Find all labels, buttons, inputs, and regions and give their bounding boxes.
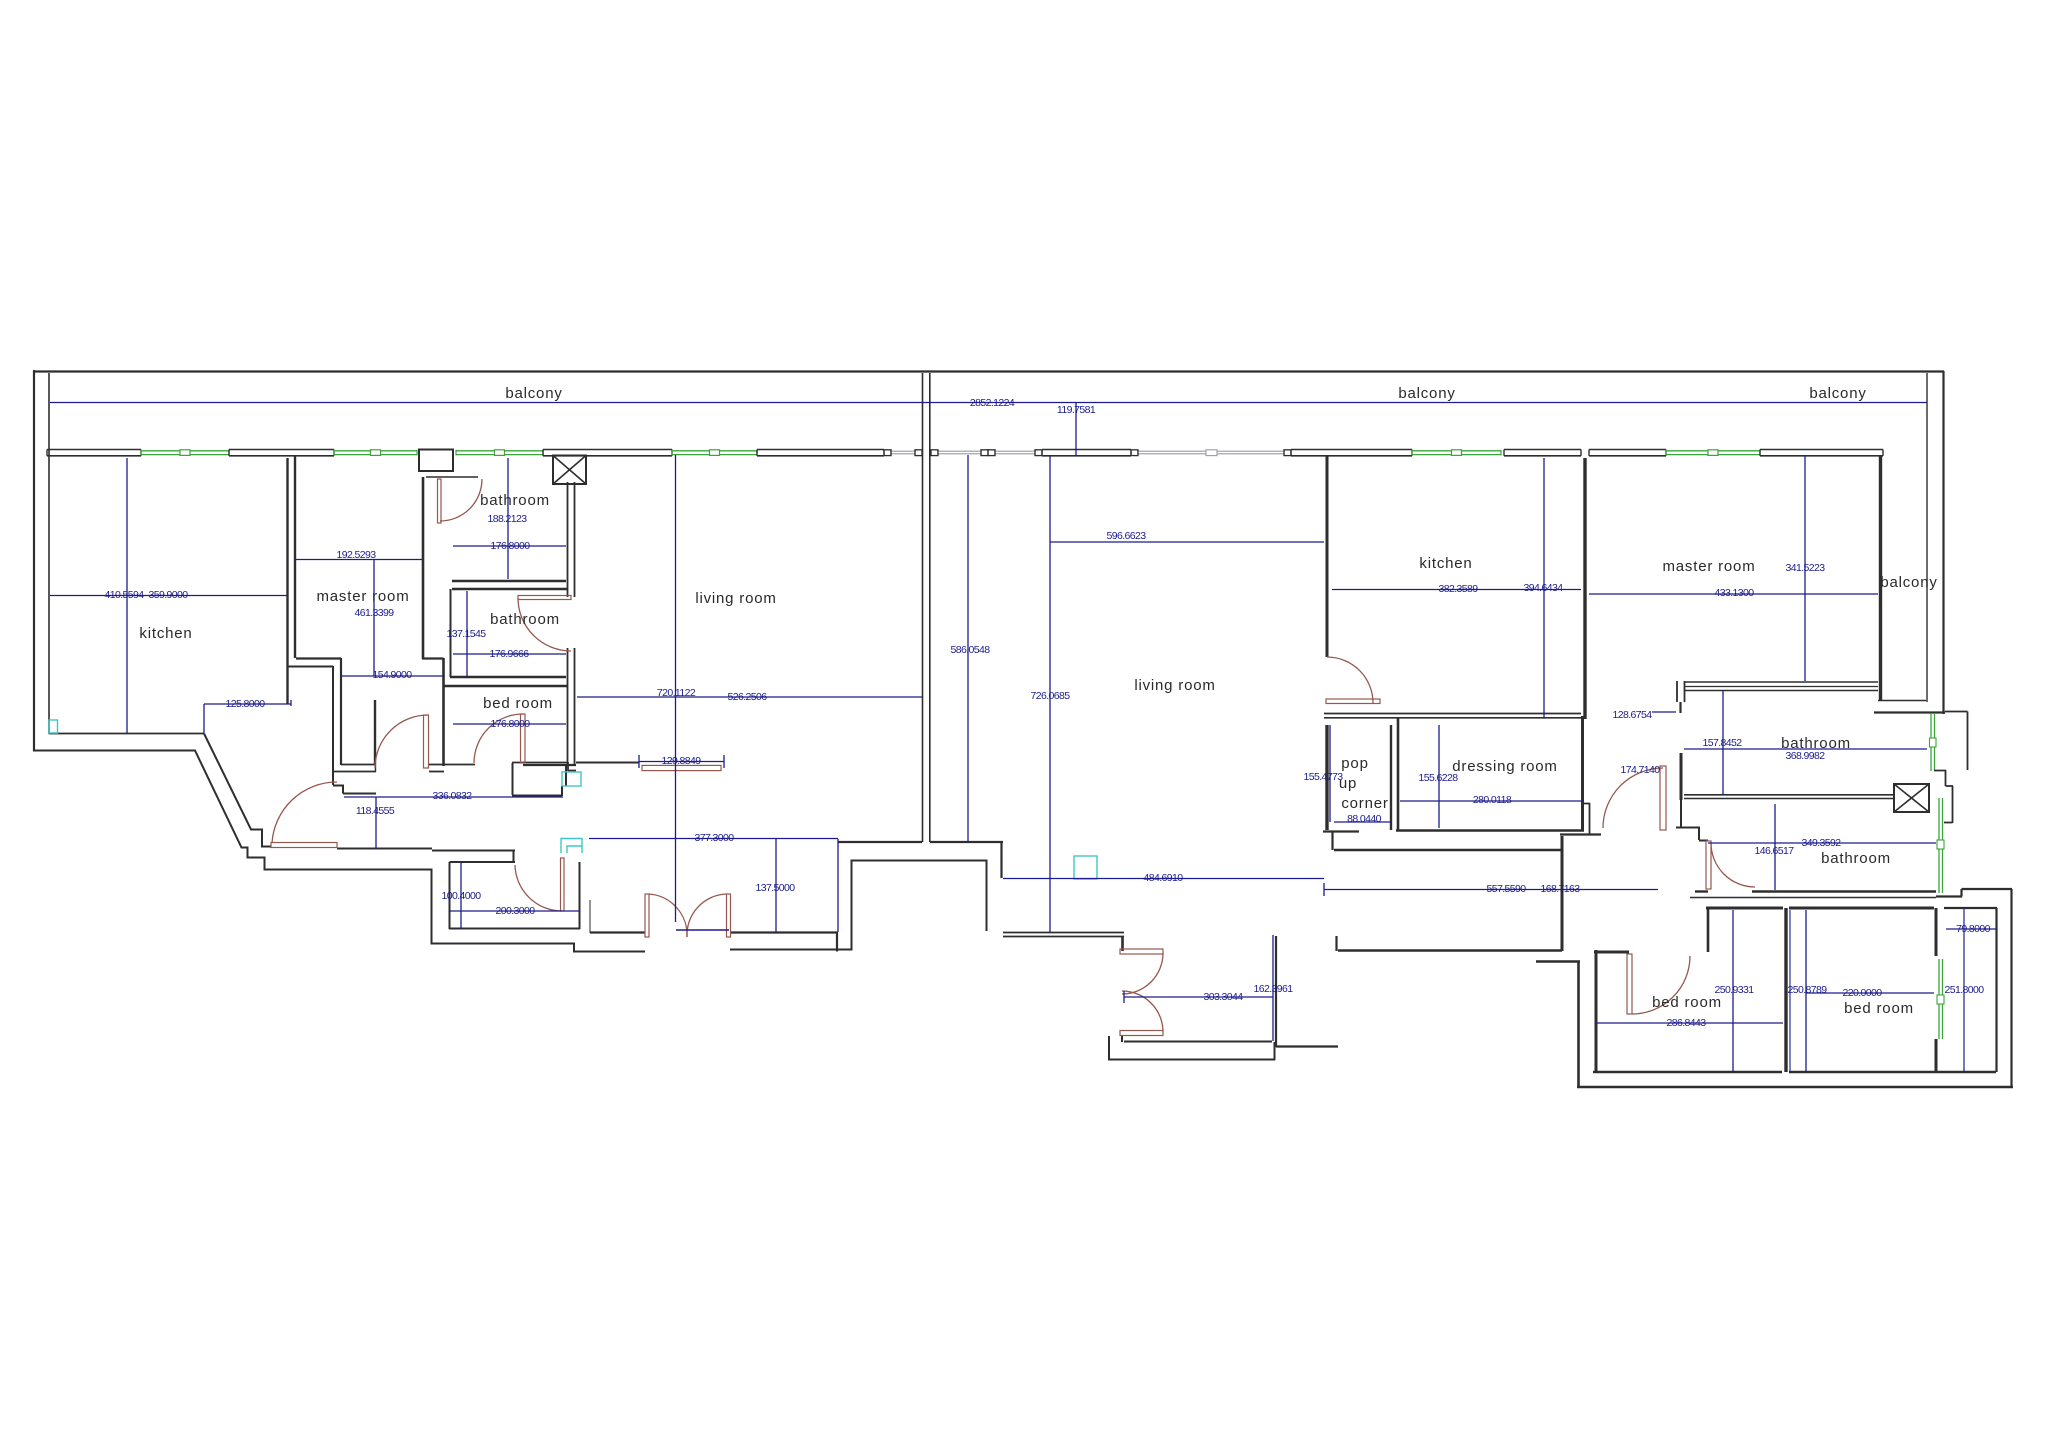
svg-text:balcony: balcony: [1880, 574, 1937, 591]
window bedroom2R green: [1937, 959, 1944, 1039]
window W7 white: [1131, 450, 1291, 456]
label bathroom2 right: [1821, 850, 1891, 867]
dim 119.7581 vertical: [1075, 403, 1077, 455]
wall outer bottom right: [1577, 1086, 2013, 1088]
wall entry left stub: [590, 900, 645, 933]
wall right rooms right: [1995, 908, 1997, 1072]
dim 349.3592 line: [1708, 842, 1936, 844]
svg-text:corner: corner: [1341, 795, 1388, 812]
dim 586.0548 vertical: [967, 455, 969, 842]
svg-text:119.7581: 119.7581: [1057, 404, 1096, 416]
num 125.8000: [226, 698, 266, 710]
svg-text:168.7163: 168.7163: [1541, 883, 1581, 895]
svg-text:155.6228: 155.6228: [1419, 772, 1459, 784]
dim 192 vertical: [373, 559, 375, 676]
label balcony right: [1809, 385, 1866, 402]
window right bath2 green: [1937, 798, 1944, 893]
svg-text:250.9331: 250.9331: [1715, 984, 1755, 996]
num 250.9331: [1715, 984, 1755, 996]
label bed room 2R: [1844, 1000, 1914, 1017]
label master room right: [1663, 558, 1756, 575]
svg-text:154.9000: 154.9000: [373, 669, 413, 681]
label living room left: [695, 590, 776, 607]
svg-text:394.6434: 394.6434: [1524, 582, 1564, 594]
dim 250.8789 vertical: [1805, 910, 1807, 1072]
dim 303.3044 line: [1124, 991, 1273, 1003]
window W5 white: [884, 450, 922, 456]
num 250.8789: [1788, 984, 1828, 996]
door bathroom1 arc: [440, 479, 482, 521]
door master-corridor leaf: [424, 715, 429, 768]
svg-text:484.6910: 484.6910: [1144, 872, 1184, 884]
num 484.6910: [1144, 872, 1184, 884]
wall bedroom1R topright stub: [1707, 908, 1710, 952]
svg-text:bed room: bed room: [1844, 1000, 1914, 1017]
dim 557-168 line: [1324, 883, 1658, 896]
svg-text:433.1300: 433.1300: [1715, 587, 1755, 599]
label pop: [1341, 755, 1368, 772]
num 526.2506: [728, 691, 768, 703]
num 119.7581: [1057, 404, 1096, 416]
wire outer top wall: [33, 370, 1944, 372]
wall top segment I: [1760, 450, 1883, 456]
wall hall bottom piece: [512, 762, 576, 771]
door hall small leaf: [642, 765, 721, 770]
svg-text:88.0440: 88.0440: [1347, 813, 1382, 825]
svg-text:726.0685: 726.0685: [1031, 690, 1071, 702]
wall bedroom bottom band mid: [429, 765, 475, 772]
wall bathroom2R left steps: [1676, 753, 1708, 841]
fixture cyan kitchen: [49, 720, 58, 733]
svg-text:100.4000: 100.4000: [442, 890, 482, 902]
wall pocket: [1108, 1035, 1275, 1060]
wall corridor right: [374, 700, 376, 764]
wall bathroom2 left: [450, 589, 452, 677]
wall master bottom elbow: [296, 657, 341, 659]
door master-corridor arc: [375, 715, 428, 768]
num 382.3589: [1439, 583, 1479, 595]
num 155.6228: [1419, 772, 1459, 784]
wall right rooms divider: [1963, 908, 1965, 1072]
wall bedroom left: [442, 658, 445, 766]
door bathroom2 arc: [518, 598, 571, 651]
dim 382-394 line: [1332, 589, 1581, 591]
door kitchen2 leaf: [1326, 699, 1380, 704]
wall master-bath divider: [422, 477, 425, 659]
wire outer bottom-left with diagonal: [33, 751, 645, 952]
wall corridor2 left: [1561, 836, 1564, 951]
svg-text:bed room: bed room: [1652, 994, 1722, 1011]
dim 146.6517 vertical: [1774, 804, 1776, 890]
door bathroom2 leaf: [518, 596, 571, 600]
dim 157-368 line: [1684, 748, 1927, 750]
svg-text:410.5594: 410.5594: [105, 589, 145, 601]
svg-text:balcony: balcony: [505, 385, 562, 402]
wall lr bottom left piece: [838, 841, 922, 843]
wall right rooms top: [1944, 907, 1997, 909]
wall kitchen2 left: [1326, 456, 1329, 657]
label bathroom2 left: [490, 611, 560, 628]
num 137.1545: [447, 628, 487, 640]
num 359.9000: [149, 589, 189, 601]
wall kitchen2-master divider: [1583, 458, 1586, 719]
dim 125.8000 line: [204, 700, 291, 733]
dim entry threshold: [676, 929, 729, 931]
num 176.8000 b: [491, 718, 531, 730]
door bath2R leaf: [1706, 841, 1711, 889]
num 168.7163: [1541, 883, 1581, 895]
wall small room box: [449, 862, 580, 929]
wall bathroom-bed right double upper: [568, 482, 575, 597]
num 118.4555: [356, 805, 395, 817]
door entry double right leaf: [727, 894, 731, 937]
wall outer step right: [1936, 889, 2012, 1087]
dim 250 mid vertical: [1789, 910, 1791, 1072]
num 174.7140: [1621, 764, 1661, 776]
svg-text:balcony: balcony: [1809, 385, 1866, 402]
num 349.3592: [1802, 837, 1842, 849]
door entry double left arc: [649, 894, 687, 937]
svg-text:dressing room: dressing room: [1452, 758, 1557, 775]
num 336.0832: [433, 790, 473, 802]
dim 251.8000 vertical: [1963, 908, 1965, 1072]
dim 154.9000 line: [342, 675, 444, 677]
door bath2R arc: [1711, 843, 1755, 887]
svg-text:303.3044: 303.3044: [1204, 991, 1244, 1003]
door bath1R arc: [1603, 768, 1663, 828]
dim balcony long line: [50, 402, 1927, 404]
svg-text:336.0832: 336.0832: [433, 790, 473, 802]
door entry double left leaf: [645, 894, 649, 937]
num 128.6754: [1613, 709, 1653, 721]
num 162.3961: [1254, 983, 1294, 995]
door hall2 double top leaf: [1120, 949, 1163, 954]
wall left of bath door: [1582, 803, 1590, 835]
svg-text:368.9982: 368.9982: [1786, 750, 1826, 762]
wall bedroom bottom right: [523, 764, 576, 766]
label up: [1339, 775, 1357, 792]
dim 220.0000 line: [1806, 992, 1934, 994]
wall kitchen right: [286, 458, 288, 704]
num 586.0548: [951, 644, 991, 656]
svg-text:526.2506: 526.2506: [728, 691, 768, 703]
door bedroom1R leaf: [1627, 954, 1632, 1014]
wall master2 bottom step: [1677, 681, 1685, 713]
wall right step mid: [1934, 770, 1953, 823]
dim 79.8000 line: [1946, 928, 1997, 930]
window W6 white: [931, 450, 988, 456]
wall inner diagonal: [204, 734, 271, 847]
svg-text:128.6754: 128.6754: [1613, 709, 1653, 721]
wall entry right stub: [730, 933, 838, 952]
door kitchen2 arc: [1327, 657, 1373, 703]
svg-text:359.9000: 359.9000: [149, 589, 189, 601]
num 286.8443: [1667, 1017, 1707, 1029]
wall lr bottom right piece: [930, 842, 1003, 878]
dim 200.3000 line: [449, 910, 580, 912]
wall lr2 band top: [1003, 933, 1124, 937]
dim 410-359 line: [50, 595, 287, 597]
dim 155.6228 vertical: [1438, 725, 1440, 828]
wall hall bottom south: [337, 848, 432, 850]
label balcony left: [505, 385, 562, 402]
wall master2 bottom: [1684, 682, 1878, 691]
dim 192.5293 line: [296, 559, 422, 561]
window W2 green: [334, 450, 417, 456]
wall bed corridor top: [1338, 949, 1562, 952]
num 377.3000: [695, 832, 735, 844]
label corner: [1341, 795, 1388, 812]
num 341.5223: [1786, 562, 1826, 574]
wall bathroom2R bottom: [1690, 892, 1936, 898]
shaft box2 with X: [1894, 784, 1929, 812]
svg-text:220.0000: 220.0000: [1843, 987, 1883, 999]
svg-text:master room: master room: [1663, 558, 1756, 575]
wire outer right top corner: [1942, 371, 1944, 714]
svg-text:2852.1224: 2852.1224: [970, 397, 1015, 409]
wall left of small door: [576, 762, 639, 764]
svg-text:250.8789: 250.8789: [1788, 984, 1828, 996]
dim bathroom1 vertical: [507, 458, 509, 579]
wall corridor2 top: [1560, 833, 1601, 835]
svg-text:balcony: balcony: [1398, 385, 1455, 402]
window right bath1 green: [1930, 714, 1937, 771]
dim 176.8000 b1 line: [453, 545, 566, 547]
svg-text:118.4555: 118.4555: [356, 805, 395, 817]
wall balcony2 bottom: [1874, 701, 1945, 713]
num 596.6623: [1107, 530, 1147, 542]
door bath1R leaf: [1660, 766, 1666, 830]
dim 726.0685 vertical: [1049, 455, 1051, 932]
wall bedroom2R right upper: [1935, 908, 1938, 956]
svg-text:146.6517: 146.6517: [1755, 845, 1795, 857]
door small room arc: [515, 865, 562, 911]
label living room right: [1134, 677, 1215, 694]
dim 336.0832 line: [344, 796, 563, 798]
num 303.3044: [1204, 991, 1244, 1003]
num 137.5000: [756, 882, 796, 894]
wall corridor2 bottom: [1334, 849, 1562, 851]
svg-text:125.8000: 125.8000: [226, 698, 266, 710]
num 176.9666: [490, 648, 530, 660]
window W9 green: [1666, 450, 1760, 456]
wall bedrooms divider: [1784, 908, 1787, 1072]
svg-text:living room: living room: [1134, 677, 1215, 694]
num 726.0685: [1031, 690, 1071, 702]
window W8 green: [1412, 450, 1501, 456]
label balcony mid: [1398, 385, 1455, 402]
num 433.1300: [1715, 587, 1755, 599]
dim 286.8443 line: [1596, 1022, 1783, 1024]
window W1 green: [141, 450, 229, 456]
svg-text:79.8000: 79.8000: [1956, 923, 1991, 935]
wall top segment E: [1042, 450, 1131, 456]
wire outer left wall: [33, 370, 35, 751]
num 220.0000: [1843, 987, 1883, 999]
label bed room 1R: [1652, 994, 1722, 1011]
door bedroom leaf: [521, 714, 526, 763]
wall popup left: [1325, 725, 1328, 830]
wall right duct: [1945, 712, 1968, 771]
svg-text:living room: living room: [695, 590, 776, 607]
svg-text:174.7140: 174.7140: [1621, 764, 1661, 776]
wall bathroom1 bottom: [452, 580, 566, 582]
svg-text:162.3961: 162.3961: [1254, 983, 1294, 995]
label kitchen left: [139, 625, 192, 642]
wall top segment A: [47, 450, 141, 456]
fixture teal small room: [561, 839, 582, 854]
svg-text:bathroom: bathroom: [490, 611, 560, 628]
dim 341.5223 vertical: [1804, 456, 1806, 681]
door hall-entry arc: [272, 782, 337, 843]
window W3 green: [456, 450, 543, 456]
num 154.9000: [373, 669, 413, 681]
dim 157.8452 vertical: [1722, 690, 1724, 795]
wall lr2 jamb: [1121, 937, 1124, 951]
svg-text:155.4773: 155.4773: [1304, 771, 1344, 783]
dim 129.8849 line: [639, 755, 724, 768]
svg-text:192.5293: 192.5293: [337, 549, 377, 561]
label dressing room: [1452, 758, 1557, 775]
wall hall elbow low: [333, 785, 376, 794]
wall bedroom bottom band left: [333, 764, 376, 772]
num 2852.1224: [970, 397, 1015, 409]
wall popup bottom: [1323, 832, 1359, 851]
dim 88.0440 line: [1334, 821, 1392, 823]
wall bathroom-bed right double lower: [568, 648, 575, 766]
svg-text:188.2123: 188.2123: [488, 513, 528, 525]
wall bedrooms top: [1706, 907, 1934, 910]
door hall2 double top arc: [1122, 953, 1163, 994]
dim 433.1300 line: [1589, 593, 1878, 595]
wall balcony2 inner right: [1926, 373, 1928, 702]
wall pillar: [1276, 936, 1338, 1047]
num 88.0440: [1347, 813, 1382, 825]
num 394.6434: [1524, 582, 1564, 594]
wall small room top: [432, 850, 515, 862]
fixture cyan living2: [1074, 856, 1097, 879]
svg-text:bathroom: bathroom: [480, 492, 550, 509]
door entry double right arc: [687, 894, 726, 937]
fixture cyan hall: [562, 772, 581, 786]
label bed room left: [483, 695, 553, 712]
wall bedroom1R topleft: [1594, 951, 1629, 954]
dim 596.6623 line: [1050, 541, 1324, 543]
num 461.3399: [355, 607, 395, 619]
svg-text:286.8443: 286.8443: [1667, 1017, 1707, 1029]
num 100.4000: [442, 890, 482, 902]
num 188.2123: [488, 513, 528, 525]
dim 137.5 box: [776, 839, 838, 932]
door small room leaf: [561, 858, 565, 911]
wall master left: [294, 456, 296, 658]
label bathroom1 left: [480, 492, 550, 509]
svg-text:176.9666: 176.9666: [490, 648, 530, 660]
dim 162.3961 vertical: [1272, 935, 1274, 1041]
wall bathroom1R left: [1680, 753, 1683, 800]
wall bedroom2R right lower: [1935, 1039, 1938, 1072]
svg-text:129.8849: 129.8849: [662, 755, 702, 767]
label balcony master: [1880, 574, 1937, 591]
svg-text:bathroom: bathroom: [1821, 850, 1891, 867]
dim kitchen vertical: [126, 458, 128, 733]
window W4 green: [672, 450, 757, 456]
svg-text:176.8000: 176.8000: [491, 540, 531, 552]
svg-text:bed room: bed room: [483, 695, 553, 712]
wall bathroom2 bottom: [450, 676, 566, 678]
wall bathroom1R bottom: [1684, 795, 1894, 799]
door hall-entry leaf: [271, 843, 337, 848]
label bathroom1 right: [1781, 735, 1851, 752]
dim 128.6754 line: [1652, 711, 1676, 713]
wall dressing bottom: [1396, 829, 1584, 831]
wall block over bathroom door: [419, 450, 478, 478]
num 720.1122: [657, 687, 696, 699]
num 129.8849: [662, 755, 702, 767]
label master room left: [317, 588, 410, 605]
wall corridor left a: [340, 658, 342, 765]
svg-text:kitchen: kitchen: [139, 625, 192, 642]
svg-text:137.1545: 137.1545: [447, 628, 487, 640]
wall bathroom2 top: [452, 588, 568, 590]
svg-text:157.8452: 157.8452: [1703, 737, 1743, 749]
num 176.8000 a: [491, 540, 531, 552]
svg-text:master room: master room: [317, 588, 410, 605]
wall top segment F: [1291, 450, 1412, 456]
wall kitchen2 bottom dressing top: [1324, 714, 1581, 718]
num 200.3000: [496, 905, 536, 917]
dim lr1 vertical: [675, 455, 677, 922]
wall top segment D: [757, 450, 884, 456]
num 410.5594: [105, 589, 145, 601]
wall unit separation: [923, 373, 930, 842]
door bedroom1R arc: [1632, 956, 1690, 1014]
dim 100.4000 vertical: [460, 862, 462, 929]
door bedroom arc: [474, 714, 523, 763]
wall bedroom top: [444, 685, 568, 687]
wall top segment G: [1504, 450, 1581, 456]
wall popup right: [1390, 725, 1392, 830]
svg-text:377.3000: 377.3000: [695, 832, 735, 844]
door hall2 double bottom arc: [1122, 991, 1163, 1032]
wire outer entry right: [730, 861, 987, 950]
svg-text:pop: pop: [1341, 755, 1368, 772]
svg-text:349.3592: 349.3592: [1802, 837, 1842, 849]
wall bedroom1R left: [1595, 950, 1598, 1072]
wall bedroomR outer left: [1536, 962, 1580, 1088]
wall bath2 left elbow: [422, 657, 444, 659]
dim 377.3000 line: [589, 838, 838, 840]
wall kitchen bottom: [49, 733, 204, 735]
door bathroom1 leaf: [438, 479, 442, 523]
num 368.9982: [1786, 750, 1826, 762]
svg-text:382.3589: 382.3589: [1439, 583, 1479, 595]
dim 137.1545 vertical: [466, 591, 468, 676]
svg-text:kitchen: kitchen: [1419, 555, 1472, 572]
wall bedrooms bottom inner: [1593, 1071, 1996, 1073]
dim 176.9666 line: [453, 653, 566, 655]
svg-text:720.1122: 720.1122: [657, 687, 696, 699]
door hall2 double bottom leaf: [1120, 1031, 1163, 1036]
window W6b white: [988, 450, 1042, 456]
wall top segment C: [543, 450, 672, 456]
num 155.4773: [1304, 771, 1344, 783]
wall below bedroom step: [512, 763, 566, 796]
dim 250.9331 vertical: [1732, 910, 1734, 1072]
shaft box with X: [553, 456, 586, 485]
num 146.6517: [1755, 845, 1795, 857]
wall dressing right: [1581, 716, 1584, 831]
